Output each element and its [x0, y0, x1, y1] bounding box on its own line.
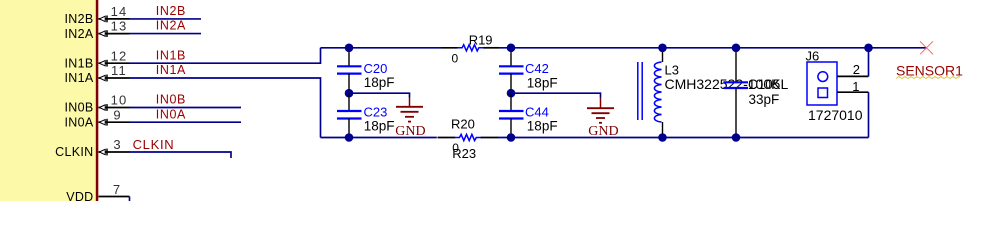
svg-text:IN0B: IN0B: [156, 93, 186, 107]
svg-text:18pF: 18pF: [364, 118, 395, 133]
svg-text:C42: C42: [525, 61, 549, 76]
GND bar symbol: [409, 98, 411, 107]
wire J6 pin1 to bottom rail: [868, 92, 870, 137]
svg-text:18pF: 18pF: [364, 75, 395, 90]
pin lead: [99, 33, 130, 35]
pin lead: [99, 196, 130, 198]
C20 bottom lead: [348, 74, 350, 94]
svg-text:1: 1: [852, 79, 859, 94]
pin 10 (IN0B): [65, 93, 130, 115]
pin 11 (IN1A): [65, 63, 130, 85]
inductor L3 (common-mode choke): [638, 48, 789, 138]
wire VDD down: [129, 197, 131, 202]
R19 zigzag body: [457, 45, 484, 51]
power GND 2: [587, 98, 619, 140]
input arrow glyph: [99, 16, 105, 21]
C42 bottom lead: [510, 74, 512, 94]
R20 right lead: [481, 137, 498, 139]
wire net IN2A: [130, 33, 202, 35]
wire mid-left rail to GND: [349, 93, 410, 97]
compile-error squiggle under SENSOR1: [896, 77, 960, 79]
svg-text:1727010: 1727010: [808, 107, 863, 123]
svg-text:R20: R20: [451, 117, 475, 132]
junction L3 top: [658, 44, 667, 53]
C23 plates: [337, 110, 362, 112]
connector J6: [806, 48, 869, 123]
svg-text:12: 12: [111, 48, 128, 63]
input arrow glyph: [99, 61, 105, 66]
svg-text:IN0B: IN0B: [65, 101, 94, 115]
svg-text:IN2B: IN2B: [156, 4, 186, 18]
wire net IN1B: [130, 48, 321, 63]
svg-text:3: 3: [113, 137, 120, 152]
svg-text:IN2A: IN2A: [65, 27, 94, 41]
no-ERC marker X at SENSOR1: [920, 41, 933, 54]
pin 3 (CLKIN): [55, 137, 129, 159]
junction C42/C44 mid-right: [507, 89, 516, 98]
IC body (yellow part outline): [0, 0, 96, 201]
junction C23 bottom: [345, 133, 354, 142]
wire net IN0B: [130, 107, 242, 109]
svg-text:33pF: 33pF: [749, 92, 780, 107]
svg-text:C105: C105: [748, 77, 780, 92]
capacitor C44: [499, 93, 558, 137]
svg-text:R19: R19: [469, 33, 493, 48]
pin 14 (IN2B): [65, 4, 130, 26]
svg-text:R23: R23: [452, 146, 476, 161]
junction J6 top: [864, 44, 873, 53]
resistor R20: [438, 117, 498, 155]
wire net IN2B: [130, 18, 202, 20]
C105 plates: [724, 81, 749, 83]
C20 top lead: [348, 48, 350, 67]
junction C42 top: [507, 44, 516, 53]
svg-text:IN1A: IN1A: [65, 71, 94, 85]
svg-text:13: 13: [111, 19, 128, 34]
C20 plates: [337, 65, 362, 67]
pin lead: [99, 18, 130, 20]
svg-text:2: 2: [853, 62, 860, 77]
pin 12 (IN1B): [65, 48, 130, 70]
C23 bottom lead: [348, 119, 350, 138]
R19 left lead: [442, 47, 458, 49]
C23 top lead: [348, 93, 350, 111]
pin 7 (VDD): [66, 182, 129, 204]
C44 plates: [499, 110, 524, 112]
C105 bottom lead: [735, 88, 737, 138]
C44 bottom lead: [510, 119, 512, 138]
svg-text:IN0A: IN0A: [156, 107, 186, 121]
svg-text:18pF: 18pF: [527, 75, 558, 90]
C42 plates: [499, 65, 524, 67]
junction C20/C23 mid-left: [345, 89, 354, 98]
pin lead: [99, 121, 130, 123]
J6 pin 2 lead: [837, 75, 869, 77]
wire net IN0A: [130, 121, 242, 123]
junction L3 bottom: [658, 133, 667, 142]
C105 top lead: [735, 48, 737, 83]
pin 13 (IN2A): [65, 19, 130, 41]
svg-text:C44: C44: [525, 105, 549, 120]
J6 circle contact: [818, 72, 828, 82]
svg-text:14: 14: [111, 4, 128, 19]
C44 top lead: [510, 93, 512, 111]
J6 square contact: [818, 88, 828, 98]
svg-text:CLKIN: CLKIN: [55, 145, 93, 159]
svg-text:IN2B: IN2B: [65, 12, 94, 26]
wire net CLKIN: [130, 152, 232, 158]
capacitor C23: [337, 93, 394, 137]
capacitor C20: [337, 48, 394, 93]
L3 bottom lead: [662, 122, 664, 138]
junction C20 top: [345, 44, 354, 53]
svg-text:J6: J6: [806, 48, 820, 63]
R19 right lead: [483, 47, 499, 49]
power GND 1: [395, 98, 425, 140]
svg-text:C23: C23: [364, 105, 388, 120]
L3 top lead: [662, 48, 664, 62]
resistor R19: [442, 33, 500, 66]
svg-text:VDD: VDD: [66, 190, 93, 201]
svg-text:7: 7: [113, 182, 120, 197]
L3 core bars: [637, 62, 639, 120]
pin 9 (IN0A): [65, 107, 130, 129]
svg-text:11: 11: [111, 63, 127, 78]
svg-text:CLKIN: CLKIN: [133, 137, 175, 152]
input arrow glyph: [99, 105, 105, 110]
pin lead: [99, 77, 130, 79]
pin lead: [99, 107, 130, 109]
pin lead: [99, 151, 130, 153]
input arrow glyph: [99, 149, 105, 154]
wire bottom rail left (IN1A net): [321, 137, 437, 139]
J6 pin 1 lead: [837, 91, 869, 93]
capacitor C42: [499, 48, 558, 93]
R20 left lead: [438, 137, 456, 139]
input arrow glyph: [99, 120, 105, 125]
wire bottom rail right: [497, 137, 869, 139]
wire top rail left (IN1B net): [321, 47, 442, 49]
junction C105 bottom: [732, 133, 741, 142]
svg-text:IN2A: IN2A: [156, 19, 186, 33]
svg-text:10: 10: [111, 93, 128, 108]
svg-text:IN1A: IN1A: [156, 63, 186, 77]
junction C44 bottom: [507, 133, 516, 142]
L3 coil: [654, 62, 661, 122]
wire J6 pin2 to top rail: [868, 48, 870, 77]
GND bar symbol: [600, 98, 602, 109]
wire net IN1A: [130, 78, 321, 138]
svg-text:IN1B: IN1B: [156, 48, 186, 62]
svg-text:GND: GND: [588, 124, 618, 139]
junction C105 top: [732, 44, 741, 53]
wire top rail right (to SENSOR1): [499, 47, 927, 49]
wire mid-right rail to GND: [511, 93, 601, 97]
J6 body: [807, 62, 837, 105]
svg-text:IN0A: IN0A: [65, 115, 94, 129]
svg-text:GND: GND: [395, 124, 425, 139]
svg-text:C20: C20: [364, 61, 388, 76]
input arrow glyph: [99, 31, 105, 36]
svg-text:9: 9: [113, 107, 120, 122]
svg-text:IN1B: IN1B: [65, 56, 94, 70]
svg-text:0: 0: [452, 52, 459, 66]
R20 zigzag body: [455, 134, 482, 140]
pin lead: [99, 62, 130, 64]
svg-text:18pF: 18pF: [527, 118, 558, 133]
C42 top lead: [510, 48, 512, 67]
capacitor C105: [724, 48, 781, 138]
input arrow glyph: [99, 75, 105, 80]
